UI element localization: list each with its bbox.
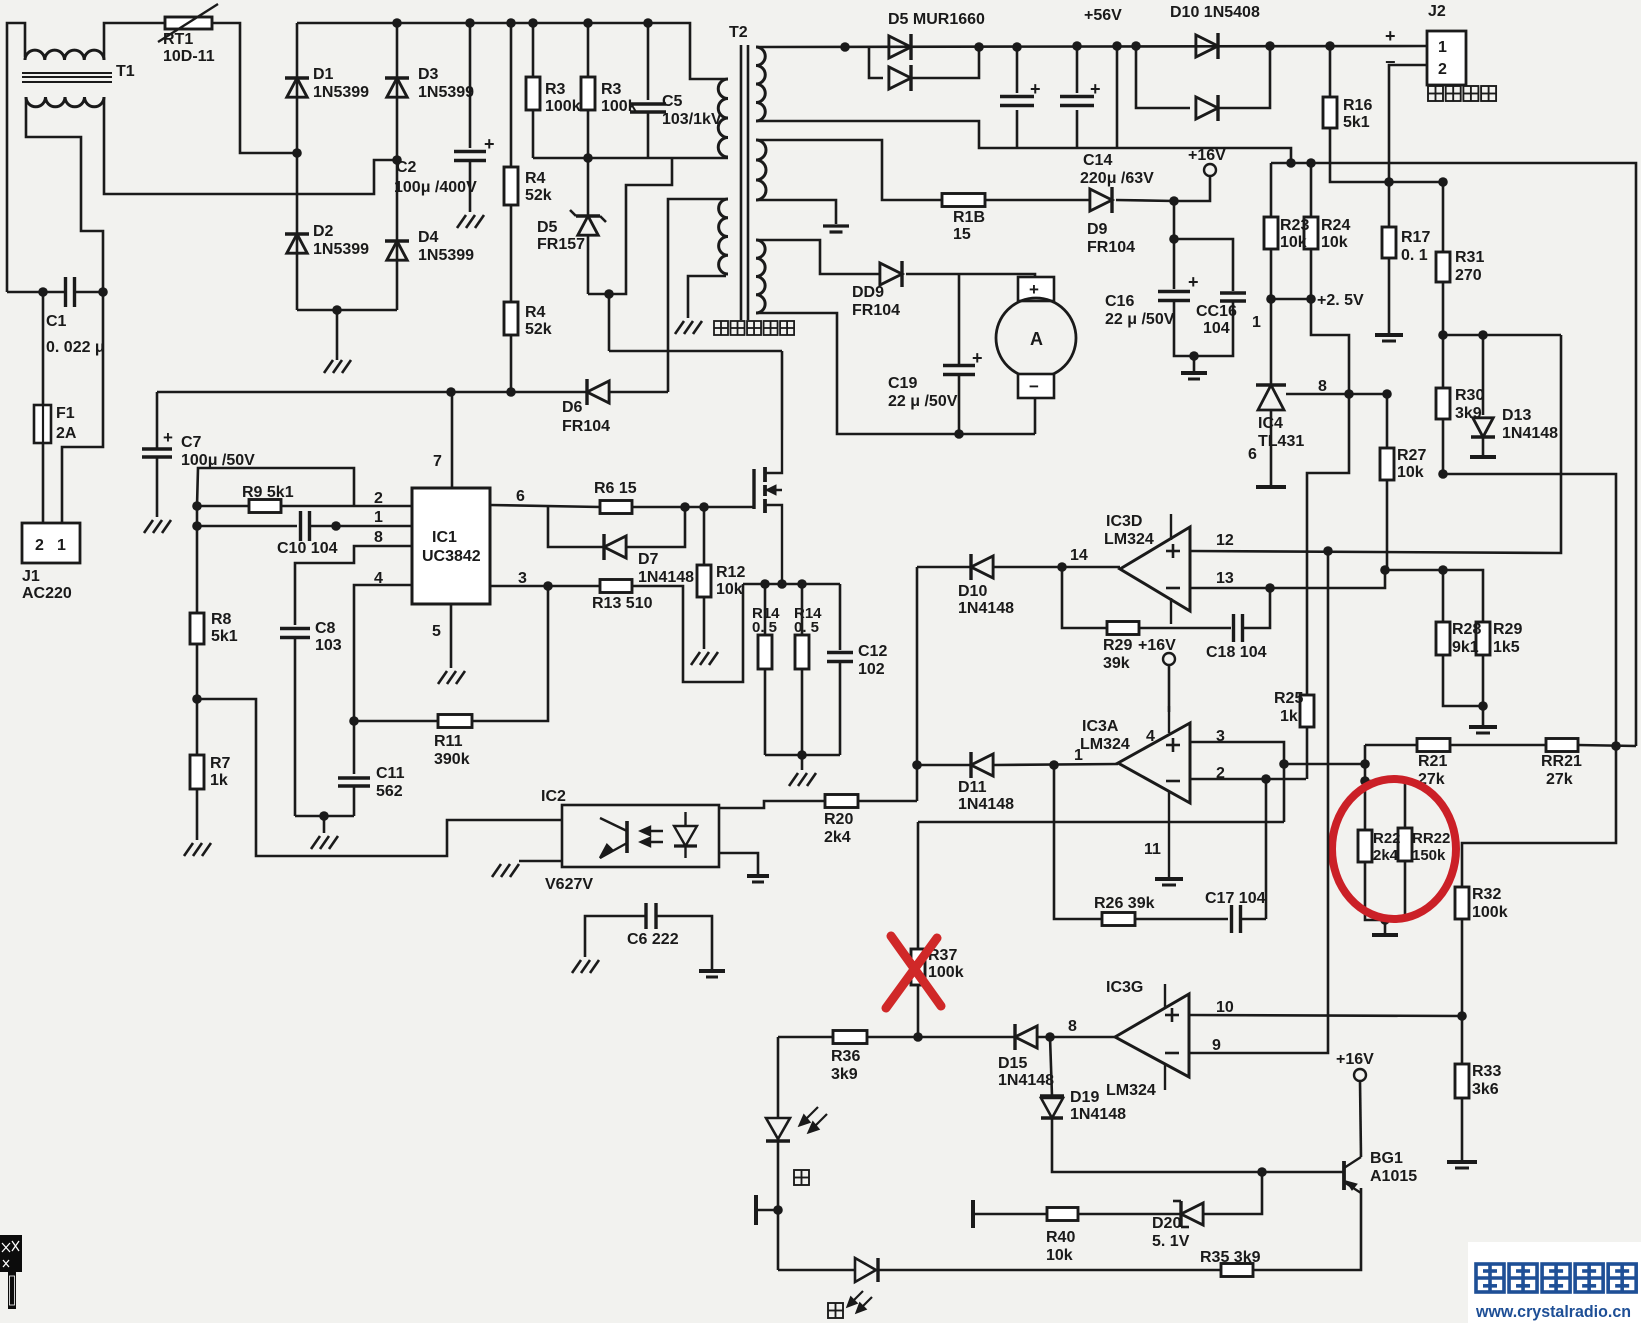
junction pin13 c18: [1265, 583, 1275, 593]
svg-text:R26 39k: R26 39k: [1094, 895, 1155, 912]
junction rail C14a: [1012, 42, 1022, 52]
diode D19: [1040, 1096, 1064, 1118]
svg-text:3: 3: [518, 570, 527, 587]
svg-text:R23: R23: [1280, 217, 1309, 234]
resistor RR21: [1546, 739, 1578, 752]
svg-text:R1B: R1B: [953, 209, 985, 226]
svg-text:9k1: 9k1: [1452, 639, 1479, 656]
wire T1 bottom-right to bridge: [104, 97, 397, 194]
ground opto emitter: [492, 864, 519, 877]
resistor R11: [438, 715, 472, 728]
wire pin13 line: [1190, 570, 1385, 588]
svg-text:1k: 1k: [1280, 708, 1298, 725]
svg-text:+: +: [484, 134, 495, 154]
svg-text:D5: D5: [537, 219, 558, 236]
wire R11 right: [472, 586, 548, 721]
junction rail D5 left: [840, 42, 850, 52]
wire C8C11 ground stem: [323, 816, 326, 833]
watermark white backing: [1468, 1242, 1641, 1323]
svg-text:R27: R27: [1397, 447, 1426, 464]
transformer T2 secondary winding 3: [756, 240, 765, 313]
wire C19 bottom: [958, 375, 961, 434]
ground R12: [691, 652, 718, 665]
transformer T1 top winding: [25, 50, 104, 60]
junction rail R16: [1325, 41, 1335, 51]
junction top bus R4: [506, 18, 516, 28]
junction 163 bus step: [1286, 158, 1296, 168]
svg-text:IC3D: IC3D: [1106, 513, 1142, 530]
wire D19 bottom: [1052, 1118, 1344, 1172]
wire R14a bottom: [764, 669, 767, 755]
wire D5b right join: [911, 47, 979, 78]
svg-text:5: 5: [432, 623, 441, 640]
wire R3a column: [532, 23, 535, 77]
wire R17 ground stem: [1388, 258, 1391, 333]
ground R7: [184, 843, 211, 856]
wire R14 join line: [765, 754, 840, 757]
junction 182 R31: [1438, 177, 1448, 187]
wire 16V to pin4: [1168, 665, 1171, 712]
junction R8 R7: [192, 694, 202, 704]
svg-text:10: 10: [1216, 999, 1234, 1016]
wire T1 bottom-left staircase: [26, 97, 103, 292]
resistor R26: [1102, 913, 1135, 926]
wire DD9 to motor: [906, 274, 1035, 277]
wire R24 top: [1310, 163, 1313, 217]
wire C7 ground stem: [156, 457, 159, 517]
diode D2: [285, 234, 309, 253]
svg-text:11: 11: [1144, 841, 1161, 858]
junction 2.5V a: [1266, 294, 1276, 304]
wire R3b bottom: [587, 110, 590, 158]
svg-text:D4: D4: [418, 229, 439, 246]
svg-text:D10: D10: [958, 583, 987, 600]
thermistor RT1 arrow: [158, 4, 218, 42]
svg-text:10k: 10k: [1321, 234, 1348, 251]
wire mains top-left loop: [7, 23, 25, 292]
wire 163 left end: [1270, 163, 1273, 217]
svg-text:+: +: [1385, 26, 1396, 46]
wire bridge ground stem: [336, 310, 339, 360]
wire R36 line: [778, 1036, 833, 1039]
wire C11 top: [353, 721, 356, 774]
diode D3: [385, 78, 409, 97]
ground T2 shield: [675, 321, 702, 334]
svg-text:R21: R21: [1418, 753, 1447, 770]
wire D11 left: [917, 764, 971, 767]
wire R14a top: [764, 584, 767, 635]
ground opto cathode bar: [747, 874, 769, 878]
wire pin3 to R22: [1284, 763, 1365, 766]
resistor R40: [1047, 1208, 1078, 1221]
svg-text:F1: F1: [56, 405, 75, 422]
svg-text:C10 104: C10 104: [277, 540, 338, 557]
svg-text:8: 8: [374, 529, 383, 546]
junction 335 a: [1438, 330, 1448, 340]
svg-text:1k5: 1k5: [1493, 639, 1520, 656]
diode D10a: [1196, 33, 1218, 59]
svg-text:1N4148: 1N4148: [998, 1072, 1054, 1089]
svg-text:5k1: 5k1: [211, 628, 238, 645]
svg-text:103: 103: [315, 637, 342, 654]
resistor R1B: [942, 194, 985, 207]
capacitor C19: [943, 366, 975, 375]
wire secondary top rail: [756, 46, 1427, 47]
capacitor C12: [827, 653, 853, 662]
wire R13 right jog: [632, 584, 743, 682]
op-amp IC3G: [1115, 994, 1189, 1077]
svg-text:C16: C16: [1105, 293, 1134, 310]
junction D1-D2: [292, 148, 302, 158]
svg-text:R40: R40: [1046, 1229, 1075, 1246]
wire R35 to BG1: [1253, 1188, 1361, 1270]
wire pin1 line right: [311, 525, 412, 528]
wire R4 column mid: [510, 205, 513, 302]
led red: [848, 1258, 878, 1312]
svg-text:R31: R31: [1455, 249, 1484, 266]
junction D15 D19: [1045, 1032, 1055, 1042]
svg-text:IC2: IC2: [541, 788, 566, 805]
svg-text:R20: R20: [824, 811, 853, 828]
junction gate a: [680, 502, 690, 512]
ground C16 bar: [1181, 371, 1207, 375]
svg-text:0. 5: 0. 5: [794, 619, 819, 636]
ground R17 bar: [1375, 333, 1403, 337]
ground C16 tick: [1188, 378, 1200, 381]
svg-text:1: 1: [1438, 39, 1447, 56]
svg-text:R17: R17: [1401, 229, 1430, 246]
svg-text:C12: C12: [858, 643, 887, 660]
junction R14b top: [797, 579, 807, 589]
wire C1 left link: [7, 291, 43, 294]
wire D1 column: [296, 23, 299, 310]
connector J1: [22, 523, 80, 563]
svg-text:−: −: [1029, 377, 1039, 396]
wire R4 column bottom: [510, 335, 513, 392]
resistor R16: [1323, 97, 1337, 128]
wire IC1 pin6: [490, 505, 600, 507]
svg-text:R28: R28: [1452, 621, 1481, 638]
svg-text:7: 7: [433, 453, 442, 470]
junction rail link: [1112, 41, 1122, 51]
wire red led line: [778, 1269, 855, 1272]
junction pin2 c17: [1261, 774, 1271, 784]
svg-text:R25: R25: [1274, 690, 1303, 707]
watermark crystalradio cn chars: [1476, 1264, 1636, 1292]
op-amp IC3A: [1118, 723, 1190, 803]
resistor R17: [1382, 227, 1396, 258]
junction J2minus line: [1384, 177, 1394, 187]
wire pin12 line: [1190, 335, 1561, 553]
svg-text:3k6: 3k6: [1472, 1081, 1499, 1098]
svg-text:1k: 1k: [210, 772, 228, 789]
junction R9 node a: [192, 501, 202, 511]
svg-text:3k9: 3k9: [831, 1066, 858, 1083]
svg-text:IC1: IC1: [432, 529, 457, 546]
svg-text:R16: R16: [1343, 97, 1372, 114]
svg-text:1: 1: [57, 537, 66, 554]
svg-text:1N5399: 1N5399: [418, 84, 474, 101]
ground pin11 tick: [1162, 884, 1176, 887]
label chongdian shuchu: [1428, 86, 1496, 101]
wire C8 C11 join: [295, 815, 354, 818]
resistor R30: [1436, 388, 1450, 419]
svg-text:R36: R36: [831, 1048, 860, 1065]
resistor R12: [697, 565, 711, 597]
svg-text:D15: D15: [998, 1055, 1027, 1072]
capacitor C10: [301, 511, 310, 541]
wire 16V to BG1: [1360, 1081, 1361, 1157]
junction pin1 line: [331, 521, 341, 531]
svg-text:IC3A: IC3A: [1082, 718, 1119, 735]
wire R30 top: [1442, 335, 1445, 388]
svg-text:0. 022 μ: 0. 022 μ: [46, 339, 105, 356]
wire pin9 line: [1189, 551, 1328, 1053]
svg-text:R4: R4: [525, 170, 546, 187]
transformer T2 secondary winding 1: [756, 47, 765, 121]
svg-text:R13 510: R13 510: [592, 595, 653, 612]
junction 570 a: [1380, 565, 1390, 575]
junction top bus R3a: [528, 18, 538, 28]
junction rail D10b: [1265, 41, 1275, 51]
svg-text:1: 1: [374, 509, 383, 526]
capacitor C5: [630, 104, 666, 112]
wire R37 bottom: [917, 985, 920, 1037]
resistor R3a: [526, 77, 540, 110]
transformer T2 core: [741, 45, 748, 320]
svg-text:6: 6: [1248, 446, 1257, 463]
wire drain bus: [609, 350, 782, 353]
junction 570 b: [1438, 565, 1448, 575]
svg-text:390k: 390k: [434, 751, 470, 768]
svg-text:1N4148: 1N4148: [958, 796, 1014, 813]
optocoupler IC2 box: [562, 805, 719, 867]
ground R17 tick: [1382, 340, 1396, 343]
junction pin4 R11: [349, 716, 359, 726]
wire R14b top: [801, 584, 804, 635]
junction gate b: [699, 502, 709, 512]
wire C7 top: [156, 392, 159, 449]
wire D13 stem: [1482, 437, 1485, 455]
wire C14b bottom: [1076, 110, 1079, 148]
wire IC1 pin3: [490, 585, 600, 588]
junction C1 left: [38, 287, 48, 297]
wire mid coil bottom: [756, 200, 836, 224]
resistor R32: [1455, 887, 1469, 919]
wire IC1 pin5 stub: [450, 604, 453, 668]
wire R3b column: [587, 23, 590, 77]
svg-text:LM324: LM324: [1080, 736, 1130, 753]
wire T1 top-right to RT1: [104, 23, 165, 60]
wire D5 node down: [608, 294, 611, 351]
svg-text:C17 104: C17 104: [1205, 890, 1266, 907]
resistor R4b: [504, 302, 518, 335]
svg-text:+: +: [163, 428, 173, 447]
motor minus box: [1018, 374, 1054, 398]
thermistor RT1: [165, 17, 212, 29]
wire D9 to node: [1116, 200, 1174, 201]
zener D20 wings: [1173, 1201, 1189, 1227]
junction D3-D4: [392, 155, 402, 165]
svg-text:1N5399: 1N5399: [313, 241, 369, 258]
wire 2.5V link: [1271, 298, 1311, 301]
svg-text:150k: 150k: [1412, 847, 1446, 864]
transistor BG1: [1344, 1157, 1361, 1193]
diode D5a: [889, 34, 911, 60]
svg-text:+: +: [972, 348, 983, 368]
junction C1 right: [98, 287, 108, 297]
junction R37 node: [913, 1032, 923, 1042]
ground pin11 bar: [1155, 877, 1183, 881]
wire TL431 top: [1270, 299, 1273, 385]
junction C8 C11: [319, 811, 329, 821]
svg-text:A1015: A1015: [1370, 1168, 1417, 1185]
wire RT1 to D1-D2 node: [212, 23, 297, 153]
transformer T2 primary winding 1: [718, 79, 728, 157]
svg-text:D7: D7: [638, 551, 659, 568]
wire R12 top: [703, 507, 706, 565]
wire C8 bottom: [294, 637, 297, 816]
wire R22 ground stem: [1384, 920, 1387, 933]
svg-text:1N4148: 1N4148: [638, 569, 694, 586]
wire R36 to node: [867, 1036, 918, 1039]
wire C17 column: [1265, 779, 1268, 919]
wire D6 line: [157, 391, 587, 394]
svg-text:J1: J1: [22, 568, 40, 585]
wire R16 top: [1329, 46, 1332, 97]
wire R20 to vertical: [858, 800, 917, 803]
wire R25 top: [1307, 394, 1349, 695]
wire 474 line: [1443, 474, 1616, 887]
wire D10 left: [917, 566, 971, 569]
wire C19 top: [958, 274, 961, 366]
wire opto emitter ground: [519, 860, 562, 863]
resistor R8: [190, 613, 204, 644]
resistor R3b: [581, 77, 595, 110]
wire sense vertical: [916, 567, 919, 801]
red circle highlight: [1332, 779, 1456, 919]
wire aux winding bottom: [688, 276, 726, 318]
diode D15: [1015, 1024, 1037, 1050]
svg-text:+: +: [1188, 272, 1199, 292]
junction 474: [1438, 469, 1448, 479]
IC U1 UC3842 box: [412, 488, 490, 604]
svg-text:R6 15: R6 15: [594, 480, 637, 497]
wire pin2 loop: [197, 468, 354, 506]
wire R6 to gate: [632, 506, 754, 509]
zener D20: [1181, 1201, 1203, 1227]
svg-text:D1: D1: [313, 66, 334, 83]
resistor R37: [911, 949, 925, 985]
diode D7: [604, 534, 626, 560]
wire C16 bottom join: [1174, 301, 1233, 356]
svg-text:2: 2: [374, 490, 383, 507]
wire R31 bottom: [1442, 282, 1445, 335]
ground R28 tick: [1476, 732, 1490, 735]
svg-text:100k: 100k: [1472, 904, 1508, 921]
svg-text:AC220: AC220: [22, 585, 72, 602]
IC4 TL431: [1256, 385, 1286, 410]
svg-text:22 μ /50V: 22 μ /50V: [888, 393, 958, 410]
junction tl431 a: [1344, 389, 1354, 399]
junction R22 b: [1360, 776, 1370, 786]
junction R14 ground: [797, 750, 807, 760]
wire motor bottom: [1034, 398, 1037, 434]
svg-text:C19: C19: [888, 375, 917, 392]
wire D20 to base node: [1204, 1172, 1262, 1214]
wire green led top: [777, 1037, 780, 1118]
diode D5b: [889, 65, 911, 91]
svg-text:2: 2: [35, 537, 44, 554]
wire pin8 line: [295, 546, 412, 625]
wire R27 bottom: [1386, 480, 1389, 570]
wire D11 to pin1: [994, 764, 1118, 765]
resistor R23: [1264, 217, 1278, 249]
capacitor C6: [646, 903, 656, 929]
transistor Q1 mosfet: [754, 430, 782, 584]
wire source node line: [743, 583, 840, 586]
svg-text:FR104: FR104: [852, 302, 900, 319]
wire R40 to D20: [1078, 1213, 1181, 1216]
svg-text:100μ /50V: 100μ /50V: [181, 452, 255, 469]
wire C12 bottom: [839, 661, 842, 755]
svg-text:10k: 10k: [716, 581, 743, 598]
wire terminal link: [756, 1209, 778, 1212]
junction R14a top: [760, 579, 770, 589]
wire R26 to C17: [1135, 918, 1228, 921]
connector J2: [1427, 31, 1466, 85]
svg-text:220μ /63V: 220μ /63V: [1080, 170, 1154, 187]
svg-text:TL431: TL431: [1258, 433, 1304, 450]
wire C6 right: [657, 916, 712, 969]
wire top bus: [297, 23, 728, 79]
svg-text:D9: D9: [1087, 221, 1108, 238]
svg-text:D11: D11: [958, 779, 987, 796]
svg-text:FR104: FR104: [562, 418, 610, 435]
svg-text:R24: R24: [1321, 217, 1350, 234]
svg-text:R12: R12: [716, 564, 745, 581]
wire D5 join: [588, 158, 672, 294]
wire TL431 anode stem: [1270, 410, 1273, 485]
svg-text:RR22: RR22: [1412, 830, 1450, 847]
terminal +16V top: [1204, 164, 1216, 176]
wire IC1 pin7: [451, 392, 454, 488]
resistor R29fb: [1107, 622, 1139, 635]
wire TL431 cathode line: [1286, 393, 1387, 396]
resistor R33: [1455, 1064, 1469, 1098]
ground bridge: [324, 360, 351, 373]
resistor R9: [249, 500, 281, 513]
wire R12 ground stem: [703, 597, 706, 649]
wire D10 to pin14: [994, 566, 1120, 569]
transformer T1 core: [22, 73, 112, 82]
svg-text:R32: R32: [1472, 886, 1501, 903]
ground R14: [789, 773, 816, 786]
svg-text:D13: D13: [1502, 407, 1531, 424]
zener D13: [1471, 418, 1495, 437]
ground R28 bar: [1469, 725, 1497, 729]
resistor R7: [190, 755, 204, 789]
svg-text:102: 102: [858, 661, 885, 678]
resistor R14b: [795, 635, 809, 669]
svg-text:R33: R33: [1472, 1063, 1501, 1080]
wire C12 top: [839, 584, 842, 650]
ground TL431 bar: [1256, 485, 1286, 489]
junction top bus D3: [392, 18, 402, 28]
wire snubber node line: [533, 157, 728, 160]
svg-text:22 μ /50V: 22 μ /50V: [1105, 311, 1175, 328]
svg-text:R29: R29: [1493, 621, 1522, 638]
